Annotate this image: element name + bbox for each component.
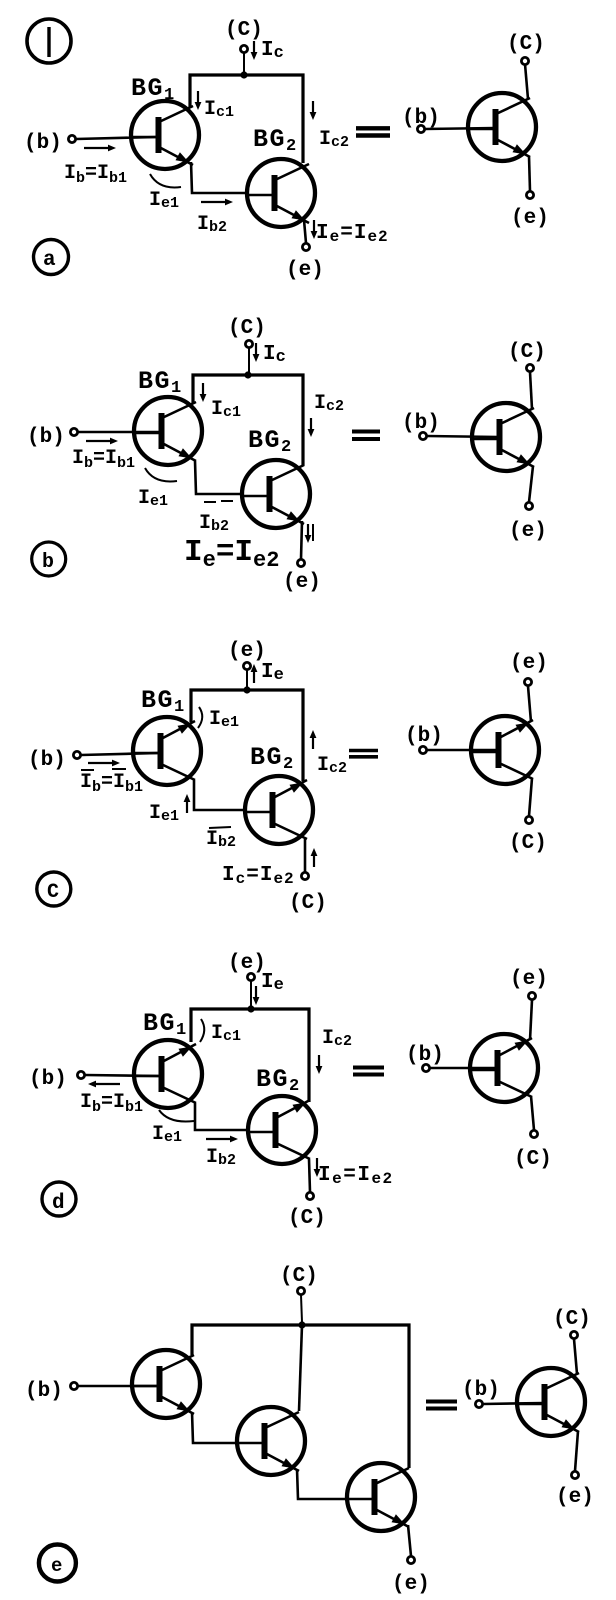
svg-text:(C): (C) bbox=[508, 341, 546, 364]
current Ic1 label fig a bbox=[195, 91, 234, 121]
node (e) terminal right fig e bbox=[556, 1471, 594, 1509]
equals sign fig d bbox=[353, 1068, 384, 1075]
current Ie1 label fig a bbox=[149, 174, 181, 212]
node (C) terminal right fig d bbox=[514, 1130, 552, 1171]
node (e) terminal fig b bbox=[283, 559, 321, 594]
node (C) terminal fig c bbox=[289, 872, 327, 915]
svg-text:(b): (b) bbox=[405, 725, 443, 748]
wire emitter right fig a bbox=[529, 156, 530, 191]
node junction top fig b bbox=[244, 371, 251, 378]
node (b) terminal fig b bbox=[27, 426, 78, 449]
current Ie1 label fig d bbox=[152, 1110, 194, 1146]
wire base right fig e bbox=[483, 1403, 544, 1404]
wire top rail fig c bbox=[191, 690, 303, 781]
transistor BG1 fig a bbox=[131, 101, 199, 169]
node (C) terminal right fig c bbox=[509, 816, 547, 855]
svg-text:(e): (e) bbox=[511, 207, 549, 230]
node junction top fig c bbox=[243, 686, 250, 693]
svg-text:(e): (e) bbox=[228, 640, 266, 663]
transistor equivalent fig c bbox=[471, 716, 539, 784]
wire base fig b bbox=[78, 431, 160, 434]
node (C) terminal fig e bbox=[280, 1265, 318, 1295]
figure letter a badge bbox=[34, 240, 69, 275]
svg-text:(e): (e) bbox=[510, 968, 548, 991]
svg-text:(b): (b) bbox=[402, 107, 440, 130]
node (C) terminal fig d bbox=[288, 1192, 326, 1230]
node (e) terminal right fig b bbox=[509, 502, 547, 543]
node (C) terminal fig a bbox=[225, 19, 263, 53]
node (e) terminal right fig c bbox=[510, 652, 548, 686]
wire base right fig d bbox=[430, 1067, 497, 1070]
node (e) terminal fig c bbox=[228, 640, 266, 670]
wire base fig e bbox=[78, 1385, 159, 1388]
svg-text:(C): (C) bbox=[228, 317, 266, 340]
svg-text:(b): (b) bbox=[27, 426, 65, 449]
current Ie label fig d bbox=[253, 971, 284, 1005]
node junction top fig e bbox=[298, 1321, 305, 1328]
node (C) terminal right fig e bbox=[553, 1308, 591, 1339]
current Ic bottom arrow fig c bbox=[311, 848, 318, 867]
svg-text:(b): (b) bbox=[402, 412, 440, 435]
svg-text:C: C bbox=[47, 881, 59, 904]
wire collector right fig a bbox=[525, 64, 528, 99]
wire collector right fig c bbox=[529, 778, 532, 816]
wire T3 emitter down fig e bbox=[408, 1525, 411, 1556]
current Ie1 label fig b bbox=[138, 468, 177, 510]
wire top rail fig d bbox=[191, 1009, 309, 1102]
svg-text:(C): (C) bbox=[507, 33, 545, 56]
transistor equivalent fig a bbox=[468, 93, 536, 161]
node junction top fig a bbox=[240, 71, 247, 78]
node (b) terminal right fig a bbox=[402, 107, 440, 133]
wire e stem fig c bbox=[246, 670, 248, 688]
current Ib arrow left fig d bbox=[88, 1081, 120, 1088]
figure letter e badge bbox=[39, 1545, 76, 1582]
node (C) terminal fig b bbox=[228, 317, 266, 348]
node (b) terminal fig c bbox=[28, 749, 81, 772]
svg-text:(b): (b) bbox=[24, 132, 62, 155]
transistor BG1 fig c bbox=[133, 717, 201, 785]
transistor equivalent fig b bbox=[472, 403, 540, 471]
svg-text:(C): (C) bbox=[225, 19, 263, 42]
wire collector right fig b bbox=[530, 372, 532, 409]
current Ic label fig a bbox=[251, 39, 284, 63]
node (e) terminal right fig a bbox=[511, 191, 549, 230]
current Ib2 label fig b bbox=[199, 501, 233, 535]
svg-text:(e): (e) bbox=[283, 571, 321, 594]
wire BG1 emitter to BG2 base fig a bbox=[191, 162, 248, 193]
wire center collector riser fig e bbox=[299, 1325, 302, 1411]
node (C) terminal right fig a bbox=[507, 33, 545, 65]
equals sign fig a bbox=[356, 128, 390, 135]
equals sign fig c bbox=[349, 751, 378, 757]
node (e) terminal fig a bbox=[286, 243, 324, 282]
transistor BG2 fig b bbox=[242, 460, 310, 528]
transistor BG2 fig c bbox=[245, 776, 313, 844]
node (e) terminal fig d bbox=[228, 952, 266, 981]
svg-text:a: a bbox=[43, 249, 56, 272]
current Ic1 label fig d bbox=[200, 1019, 241, 1045]
node (b) terminal fig a bbox=[24, 132, 76, 155]
wire base fig c bbox=[81, 753, 159, 755]
node (C) terminal right fig b bbox=[508, 341, 546, 372]
current Ie=Ie2 label fig d bbox=[314, 1158, 394, 1188]
equals sign fig e bbox=[426, 1402, 457, 1409]
svg-text:(C): (C) bbox=[514, 1148, 552, 1171]
svg-text:(C): (C) bbox=[553, 1308, 591, 1331]
transistor BG2 fig a bbox=[247, 159, 315, 227]
wire base right fig a bbox=[425, 128, 495, 129]
wire collector right fig d bbox=[531, 1096, 534, 1130]
svg-text:(e): (e) bbox=[286, 259, 324, 282]
figure number 1 badge bbox=[27, 19, 71, 63]
figure letter d badge bbox=[42, 1182, 76, 1216]
current Ie=Ie2 label fig a bbox=[311, 220, 389, 246]
wire base right fig b bbox=[427, 436, 499, 437]
wire emitter right fig e bbox=[575, 1431, 578, 1471]
transistor equivalent fig d bbox=[470, 1034, 538, 1102]
equals sign fig b bbox=[352, 432, 380, 440]
wire BG2 collector down fig d bbox=[309, 1159, 310, 1192]
svg-text:(C): (C) bbox=[289, 892, 327, 915]
svg-text:b: b bbox=[42, 551, 54, 574]
wire emitter right fig c bbox=[528, 686, 531, 722]
svg-text:(b): (b) bbox=[28, 749, 66, 772]
node (b) terminal right fig d bbox=[406, 1044, 444, 1072]
current Ib arrow fig a bbox=[84, 145, 116, 152]
transistor T3 fig e bbox=[347, 1463, 415, 1531]
wire base fig a bbox=[76, 137, 158, 139]
node (b) terminal right fig b bbox=[402, 412, 440, 440]
svg-text:(e): (e) bbox=[392, 1573, 430, 1596]
wire emitter right fig b bbox=[529, 466, 533, 502]
wire T1 emitter to T2 base fig e bbox=[192, 1412, 237, 1443]
current Ib arrow fig b bbox=[86, 438, 118, 445]
svg-text:d: d bbox=[52, 1192, 65, 1215]
svg-text:(C): (C) bbox=[509, 832, 547, 855]
svg-text:(b): (b) bbox=[462, 1379, 500, 1402]
current Ic2 label fig d bbox=[316, 1027, 352, 1074]
svg-text:(b): (b) bbox=[29, 1068, 67, 1091]
current Ib2 label fig a bbox=[197, 199, 233, 236]
wire e stem fig d bbox=[250, 981, 252, 1006]
wire BG1 collector to BG2 base fig c bbox=[194, 780, 245, 810]
node (b) terminal fig e bbox=[25, 1380, 78, 1403]
wire C stem fig b bbox=[248, 348, 250, 373]
figure letter b badge bbox=[32, 542, 66, 576]
svg-text:(b): (b) bbox=[406, 1044, 444, 1067]
node junction top fig d bbox=[247, 1005, 254, 1012]
wire collector right fig e bbox=[574, 1339, 577, 1374]
wire BG2 emitter down fig a bbox=[304, 220, 306, 243]
current Ic label fig b bbox=[253, 343, 286, 367]
current Ic2 label fig b bbox=[308, 392, 344, 437]
wire top rail fig b bbox=[193, 375, 303, 466]
current Ie1 lower label fig c bbox=[149, 794, 190, 825]
current Ic2 label fig a bbox=[310, 101, 349, 151]
current Ib2 label fig d bbox=[206, 1136, 238, 1169]
current Ib2 label fig c bbox=[206, 827, 236, 851]
node (e) terminal right fig d bbox=[510, 968, 548, 1000]
svg-text:(e): (e) bbox=[509, 520, 547, 543]
node (e) terminal fig e bbox=[392, 1556, 430, 1596]
transistor T1 fig e bbox=[132, 1350, 200, 1418]
current Ie label fig c bbox=[251, 661, 284, 685]
svg-text:(b): (b) bbox=[25, 1380, 63, 1403]
transistor BG2 fig d bbox=[248, 1096, 316, 1164]
current Ic1 label fig b bbox=[200, 383, 241, 421]
current Ib arrow fig c bbox=[88, 760, 120, 767]
svg-text:(e): (e) bbox=[556, 1486, 594, 1509]
wire T2 emitter to T3 base fig e bbox=[297, 1469, 347, 1499]
wire base fig d bbox=[85, 1075, 160, 1076]
svg-text:(C): (C) bbox=[280, 1265, 318, 1288]
svg-text:(e): (e) bbox=[510, 652, 548, 675]
figure letter c badge bbox=[37, 872, 71, 906]
svg-text:(C): (C) bbox=[288, 1207, 326, 1230]
wire C stem fig e bbox=[301, 1295, 302, 1322]
wire BG2 emitter down fig b bbox=[301, 521, 302, 559]
wire BG2 collector down fig c bbox=[304, 839, 307, 872]
node (b) terminal right fig e bbox=[462, 1379, 500, 1408]
current Ie1 top label fig c bbox=[198, 707, 239, 731]
wire base right fig c bbox=[427, 749, 498, 752]
current Ie arrows fig b bbox=[305, 524, 313, 543]
node (b) terminal fig d bbox=[29, 1068, 85, 1091]
transistor T2 fig e bbox=[237, 1407, 305, 1475]
wire emitter right fig d bbox=[530, 1000, 532, 1040]
node (b) terminal right fig c bbox=[405, 725, 443, 754]
wire BG1 emitter to BG2 base fig b bbox=[195, 461, 241, 494]
wire top rail fig a bbox=[190, 75, 303, 163]
transistor equivalent fig e bbox=[517, 1368, 585, 1436]
transistor BG1 fig b bbox=[134, 397, 202, 465]
wire BG1 collector to BG2 base fig d bbox=[195, 1103, 248, 1130]
svg-text:e: e bbox=[51, 1555, 62, 1577]
wire C stem fig a bbox=[243, 53, 245, 74]
current Ic2 label fig c bbox=[310, 730, 347, 777]
wire top rail fig e bbox=[192, 1325, 409, 1468]
transistor BG1 fig d bbox=[134, 1040, 202, 1108]
